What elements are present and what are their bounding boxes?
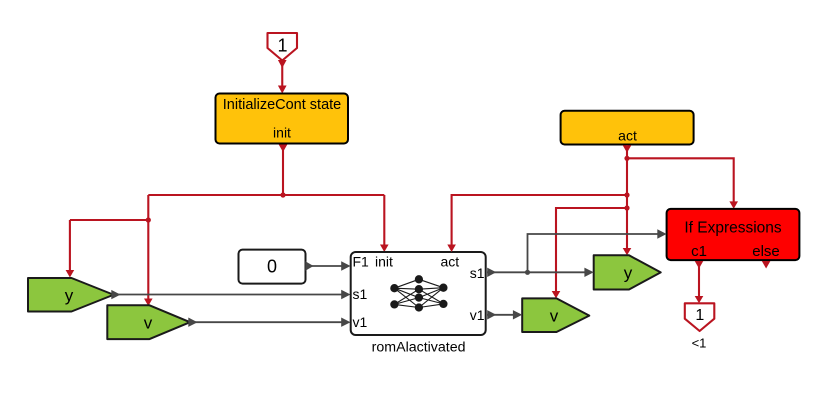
- svg-text:v1: v1: [353, 314, 368, 330]
- sink block y (right): [594, 255, 661, 289]
- junction init left branch: [146, 217, 151, 222]
- svg-text:0: 0: [267, 257, 277, 277]
- output port 1 (pentagon): [685, 303, 715, 331]
- source block y (left): [28, 278, 114, 312]
- svg-text:act: act: [441, 253, 460, 269]
- block act: [561, 111, 694, 145]
- wire v1 to v: [487, 310, 522, 319]
- wire init to subsystem init port: [380, 195, 389, 252]
- svg-text:init: init: [375, 253, 393, 269]
- block InitializeCont state: [216, 94, 349, 144]
- svg-text:<1: <1: [692, 335, 707, 350]
- wire c1 to outport: [695, 261, 704, 303]
- wire init to y source block: [66, 220, 149, 278]
- svg-text:If Expressions: If Expressions: [684, 220, 782, 237]
- svg-text:s1: s1: [353, 286, 368, 302]
- svg-text:romAlactivated: romAlactivated: [372, 340, 466, 356]
- svg-text:c1: c1: [691, 243, 707, 260]
- wire v to v1: [188, 318, 350, 327]
- wire act to If Expressions: [627, 158, 738, 209]
- subsystem romAlactivated: [351, 252, 486, 335]
- svg-text:y: y: [65, 286, 74, 305]
- wire s1 output to y sink block: [487, 268, 594, 277]
- svg-text:1: 1: [695, 307, 704, 324]
- wire act to subsystem act port: [447, 195, 627, 252]
- wire init down from InitializeCont: [279, 145, 288, 196]
- junction act upper: [624, 156, 629, 161]
- svg-text:init: init: [273, 125, 291, 141]
- input port 1 (pentagon): [268, 33, 298, 61]
- neural net icon: [391, 276, 447, 311]
- constant block 0: [239, 250, 306, 284]
- sink block v (right): [522, 298, 589, 332]
- svg-text:s1: s1: [470, 265, 485, 281]
- wire 0 to F1: [305, 261, 350, 270]
- wire inport to InitializeCont: [278, 60, 287, 94]
- junction s1 wire: [525, 270, 530, 275]
- svg-text:else: else: [752, 243, 780, 260]
- svg-text:v: v: [550, 306, 559, 325]
- svg-text:F1: F1: [353, 253, 370, 269]
- wire init horizontal bus: [148, 194, 384, 196]
- junction act lower: [624, 205, 629, 210]
- svg-text:1: 1: [277, 36, 287, 56]
- svg-text:v1: v1: [470, 307, 485, 323]
- svg-text:InitializeCont state: InitializeCont state: [223, 97, 341, 113]
- svg-text:act: act: [618, 128, 637, 144]
- else dangling arrow: [762, 261, 771, 269]
- block If Expressions: [667, 209, 800, 260]
- junction init bus: [280, 192, 285, 197]
- wire init to v source block: [144, 195, 153, 306]
- junction act middle: [624, 192, 629, 197]
- wire y to s1: [111, 290, 350, 300]
- svg-text:y: y: [624, 264, 633, 283]
- wire act to v sink block: [552, 208, 627, 298]
- source block v (left): [107, 305, 190, 339]
- wire act down to y sink block: [623, 145, 632, 255]
- wire s1 branch to If Expressions: [528, 229, 667, 272]
- svg-text:v: v: [144, 313, 153, 332]
